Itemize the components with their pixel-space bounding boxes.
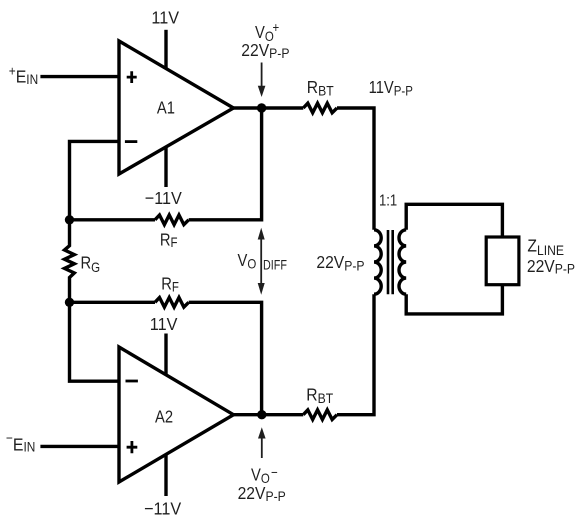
wire A1 bottom supply pin	[164, 140, 167, 187]
svg-text:A2: A2	[155, 407, 173, 427]
op-amp U1 A1 triangle	[119, 41, 234, 174]
label VO+	[255, 19, 279, 44]
label 22VP-P transformer	[316, 252, 364, 274]
label 22VP-P bottom	[238, 483, 286, 505]
label 11VP-P	[369, 78, 413, 99]
node A1 output	[257, 103, 266, 112]
label RBT top	[307, 77, 334, 99]
svg-text:22VP-P: 22VP-P	[527, 256, 575, 277]
wire A2 output to node	[234, 413, 304, 416]
label -11V A1	[145, 188, 183, 208]
load ZLINE box	[486, 237, 519, 285]
label ZLINE	[527, 236, 564, 259]
arrow VO+ pointing to A1 output node	[258, 63, 266, 98]
svg-text:DIFF: DIFF	[263, 257, 287, 273]
resistor RBT bottom	[303, 410, 337, 420]
wire RBT top to transformer primary	[337, 108, 374, 230]
svg-text:22VP-P: 22VP-P	[241, 40, 289, 61]
svg-text:11VP-P: 11VP-P	[369, 78, 413, 99]
wire -EIN input to A2	[40, 445, 119, 448]
transformer T1 primary coil	[374, 230, 381, 294]
svg-text:22VP-P: 22VP-P	[238, 483, 286, 505]
op-amp U2 A2 triangle	[119, 347, 234, 482]
label RG	[81, 253, 101, 275]
wire A2 top supply pin	[164, 334, 167, 379]
arrow VO- pointing to A2 output node	[258, 427, 266, 458]
resistor RF top	[155, 215, 189, 225]
label +EIN	[9, 63, 38, 87]
node A2 output	[257, 410, 266, 419]
label 22VP-P top	[241, 40, 289, 61]
svg-text:1:1: 1:1	[379, 192, 397, 209]
svg-text:11V: 11V	[150, 314, 178, 334]
svg-text:RBT: RBT	[307, 77, 334, 99]
resistor RF bottom	[155, 298, 189, 308]
label 11V A2	[150, 314, 178, 334]
svg-text:VO: VO	[238, 250, 257, 271]
svg-text:11V: 11V	[151, 8, 179, 28]
label RBT bottom	[306, 384, 333, 406]
wire A1 output to node	[234, 106, 304, 109]
wire A2 bottom supply pin	[164, 450, 167, 496]
label RF top	[160, 230, 178, 250]
label VO-	[251, 464, 278, 487]
wire RF bottom to A2 output node	[189, 302, 262, 414]
svg-text:RF: RF	[161, 274, 179, 295]
resistor RBT top	[303, 103, 337, 113]
svg-text:−EIN: −EIN	[6, 430, 35, 455]
label RF bottom	[161, 274, 179, 295]
wire RBT bottom to transformer primary bottom	[337, 294, 374, 415]
wire node A1 down to RF top	[189, 108, 262, 220]
node RG bottom	[65, 298, 74, 307]
A2 inverting input minus mark	[126, 380, 138, 383]
wire secondary top to ZLINE	[406, 204, 502, 237]
label -EIN	[6, 430, 35, 455]
label 1:1	[379, 192, 397, 209]
wire RF top to node	[70, 218, 156, 221]
transformer T1 core	[388, 230, 393, 294]
svg-text:−11V: −11V	[144, 499, 182, 519]
A1 inverting input minus mark	[125, 140, 137, 143]
svg-text:22VP-P: 22VP-P	[316, 252, 364, 274]
A1 non-inverting input plus mark	[127, 71, 137, 83]
arrow VO DIFF double-headed	[258, 228, 265, 295]
svg-text:+EIN: +EIN	[9, 63, 38, 87]
A2 non-inverting input plus mark	[127, 441, 138, 453]
label 11V A1	[151, 8, 179, 28]
wire +EIN input to A1	[40, 75, 119, 78]
svg-text:A1: A1	[157, 98, 175, 118]
label A1	[157, 98, 175, 118]
label VO DIFF	[238, 250, 257, 271]
resistor RG	[65, 220, 75, 302]
node RG top	[65, 215, 74, 224]
label 22VP-P right	[527, 256, 575, 277]
transformer T1 secondary coil	[399, 230, 406, 294]
svg-text:RF: RF	[160, 230, 178, 250]
svg-text:RG: RG	[81, 253, 101, 275]
svg-text:RBT: RBT	[306, 384, 333, 406]
wire A2 inverting input feedback	[70, 302, 120, 381]
wire RF bottom left lead	[70, 301, 156, 304]
wire A1 top supply pin	[164, 30, 167, 70]
svg-text:−11V: −11V	[145, 188, 183, 208]
wire secondary bottom to ZLINE	[406, 285, 502, 314]
label -11V A2	[144, 499, 182, 519]
label A2	[155, 407, 173, 427]
wire A1 inverting input feedback	[70, 141, 120, 219]
